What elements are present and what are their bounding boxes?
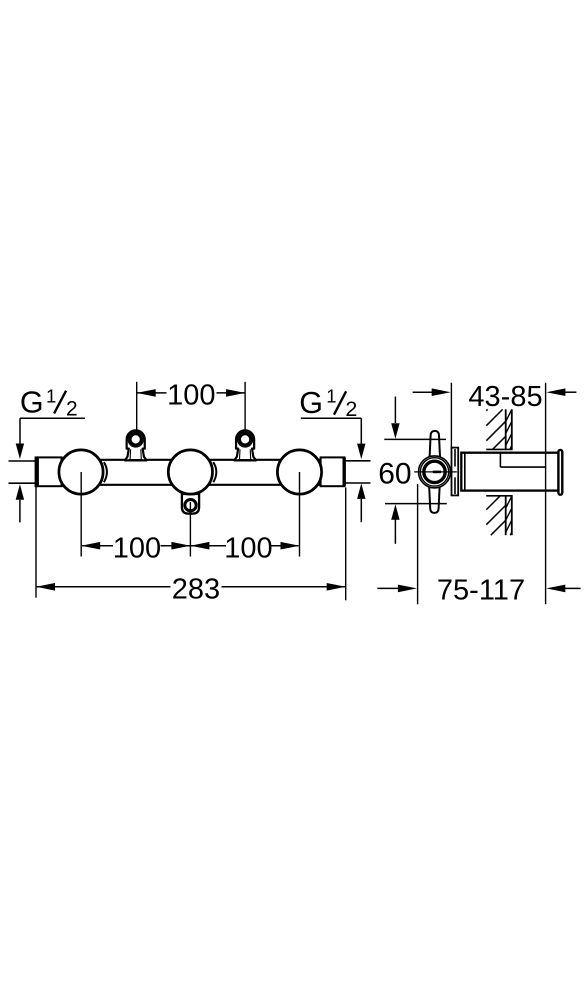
svg-text:100: 100 xyxy=(167,379,215,411)
svg-text:283: 283 xyxy=(172,573,220,605)
svg-text:75-117: 75-117 xyxy=(437,575,525,607)
svg-text:2: 2 xyxy=(66,398,78,421)
svg-text:43-85: 43-85 xyxy=(468,381,542,413)
svg-text:100: 100 xyxy=(113,532,161,564)
svg-text:1: 1 xyxy=(46,385,56,406)
svg-text:G: G xyxy=(299,386,323,420)
svg-text:2: 2 xyxy=(345,397,357,421)
svg-text:G: G xyxy=(20,386,44,420)
svg-text:60: 60 xyxy=(378,457,411,490)
svg-text:100: 100 xyxy=(224,532,272,564)
svg-text:1: 1 xyxy=(326,386,336,407)
